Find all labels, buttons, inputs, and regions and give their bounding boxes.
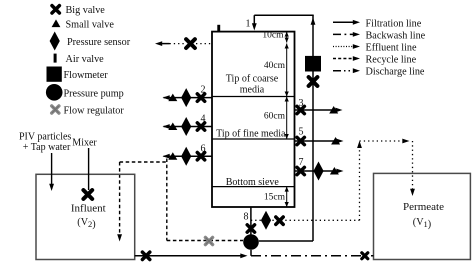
valve below flowmeter xyxy=(309,77,318,86)
node 2 line xyxy=(164,97,213,99)
legend recycle line sample xyxy=(333,58,354,60)
legend air valve symbol xyxy=(54,54,57,63)
vent dotted line left of valve xyxy=(170,43,186,45)
pressure sensor node 6 xyxy=(181,147,191,166)
air valve on column top xyxy=(217,25,220,32)
valve node 7 xyxy=(297,167,304,174)
recycle horizontal to pump xyxy=(167,240,243,242)
svg-text:Mixer: Mixer xyxy=(72,138,97,149)
node 5 line xyxy=(295,140,338,142)
bottom sieve line xyxy=(212,186,295,188)
effluent dotted top horizontal xyxy=(360,140,406,142)
PIV feed arrow xyxy=(51,153,53,186)
legend flowmeter symbol xyxy=(47,67,62,82)
svg-text:Tip of fine media: Tip of fine media xyxy=(216,129,286,140)
vent valve xyxy=(186,39,195,48)
svg-text:Flowmeter: Flowmeter xyxy=(64,70,109,81)
small valve node 3 xyxy=(329,106,338,114)
svg-text:5: 5 xyxy=(299,127,304,138)
valve node 6 xyxy=(197,153,204,160)
legend discharge line sample xyxy=(333,70,354,72)
pressure sensor node 2 xyxy=(181,88,191,107)
filtration feed from influent tank xyxy=(135,255,243,257)
recycle branch horizontal xyxy=(120,161,167,163)
small valve node 6 xyxy=(168,152,177,160)
svg-text:(V2): (V2) xyxy=(77,217,95,230)
permeate tank body xyxy=(374,173,471,259)
svg-text:Permeate: Permeate xyxy=(403,201,444,213)
svg-text:Pressure sensor: Pressure sensor xyxy=(67,37,131,48)
vent arrow xyxy=(158,43,170,45)
small valve node 7 xyxy=(330,167,339,175)
valve on feed line xyxy=(142,252,149,259)
valve node 8 xyxy=(247,225,254,232)
pressure sensor node 8 xyxy=(261,211,271,230)
node 3 line xyxy=(295,109,337,111)
svg-text:Big valve: Big valve xyxy=(66,5,106,16)
legend big valve symbol xyxy=(52,6,59,13)
discharge dash-dot line xyxy=(251,255,374,257)
svg-text:PIV particles: PIV particles xyxy=(19,132,71,143)
svg-text:Discharge line: Discharge line xyxy=(366,67,425,78)
wire pump down leg xyxy=(250,250,252,256)
svg-text:1: 1 xyxy=(246,19,251,30)
flow regulator FR1 xyxy=(205,237,212,244)
legend small valve symbol xyxy=(52,19,61,27)
wire right riser xyxy=(312,15,314,241)
riser up arrow xyxy=(311,18,316,25)
small valve node 2 xyxy=(168,94,177,102)
svg-text:Recycle line: Recycle line xyxy=(366,55,417,66)
svg-text:(V1): (V1) xyxy=(413,217,431,230)
wire column bottom to pump xyxy=(250,207,252,235)
small valve node 5 xyxy=(331,137,340,145)
valve on effluent line xyxy=(276,217,283,224)
wire pump to riser xyxy=(259,240,313,242)
svg-text:Backwash line: Backwash line xyxy=(366,30,426,41)
valve node 5 xyxy=(297,137,304,144)
svg-text:60cm: 60cm xyxy=(264,111,286,121)
valve node 4 xyxy=(197,123,204,130)
recycle vertical from node 6 xyxy=(166,159,168,241)
mixer shaft xyxy=(88,148,90,190)
column body xyxy=(212,32,295,207)
pressure pump P1 xyxy=(243,234,259,250)
svg-text:Bottom sieve: Bottom sieve xyxy=(226,177,280,188)
svg-text:Flow regulator: Flow regulator xyxy=(64,106,125,117)
vent dotted line right of valve xyxy=(196,43,212,45)
legend backwash line sample xyxy=(333,33,354,35)
svg-text:Air valve: Air valve xyxy=(66,54,105,65)
svg-text:Small valve: Small valve xyxy=(66,19,115,30)
svg-text:7: 7 xyxy=(299,157,304,168)
fine media top line xyxy=(212,138,295,140)
legend pressure pump symbol xyxy=(46,84,63,101)
effluent dotted drop into permeate xyxy=(412,141,414,191)
small valve node 4 xyxy=(168,123,177,131)
valve on discharge line xyxy=(362,253,368,259)
pressure sensor node 4 xyxy=(181,117,191,136)
svg-text:8: 8 xyxy=(244,212,249,223)
svg-text:media: media xyxy=(240,85,265,96)
flowmeter F1 xyxy=(305,56,321,72)
legend effluent line sample xyxy=(333,46,354,48)
effluent dotted horizontal xyxy=(251,219,360,221)
influent tank body xyxy=(36,174,135,259)
svg-text:Effluent line: Effluent line xyxy=(366,43,417,54)
coarse media top line xyxy=(212,96,295,98)
pressure sensor node 7 xyxy=(313,162,323,181)
svg-text:Pressure pump: Pressure pump xyxy=(64,88,124,99)
valve node 3 xyxy=(297,106,304,113)
svg-text:15cm: 15cm xyxy=(264,193,286,203)
recycle branch drop into influent xyxy=(119,162,121,236)
svg-text:10cm: 10cm xyxy=(262,31,284,41)
svg-text:Influent: Influent xyxy=(71,203,106,215)
node 4 line xyxy=(164,126,213,128)
mixer impeller xyxy=(83,190,92,199)
node 6 line xyxy=(164,155,213,157)
wire top horizontal xyxy=(254,14,313,16)
legend pressure sensor symbol xyxy=(50,32,60,51)
svg-text:40cm: 40cm xyxy=(264,61,286,71)
node 7 line xyxy=(295,170,337,172)
legend flow regulator symbol xyxy=(52,106,59,113)
legend filtration line sample xyxy=(333,21,354,23)
wire node1 down-pipe xyxy=(253,15,255,25)
svg-text:+ Tap water: + Tap water xyxy=(23,142,71,153)
svg-text:Filtration line: Filtration line xyxy=(366,18,422,29)
valve node 2 xyxy=(197,94,204,101)
effluent dotted riser xyxy=(359,144,361,220)
svg-text:Tip of coarse: Tip of coarse xyxy=(226,74,279,85)
